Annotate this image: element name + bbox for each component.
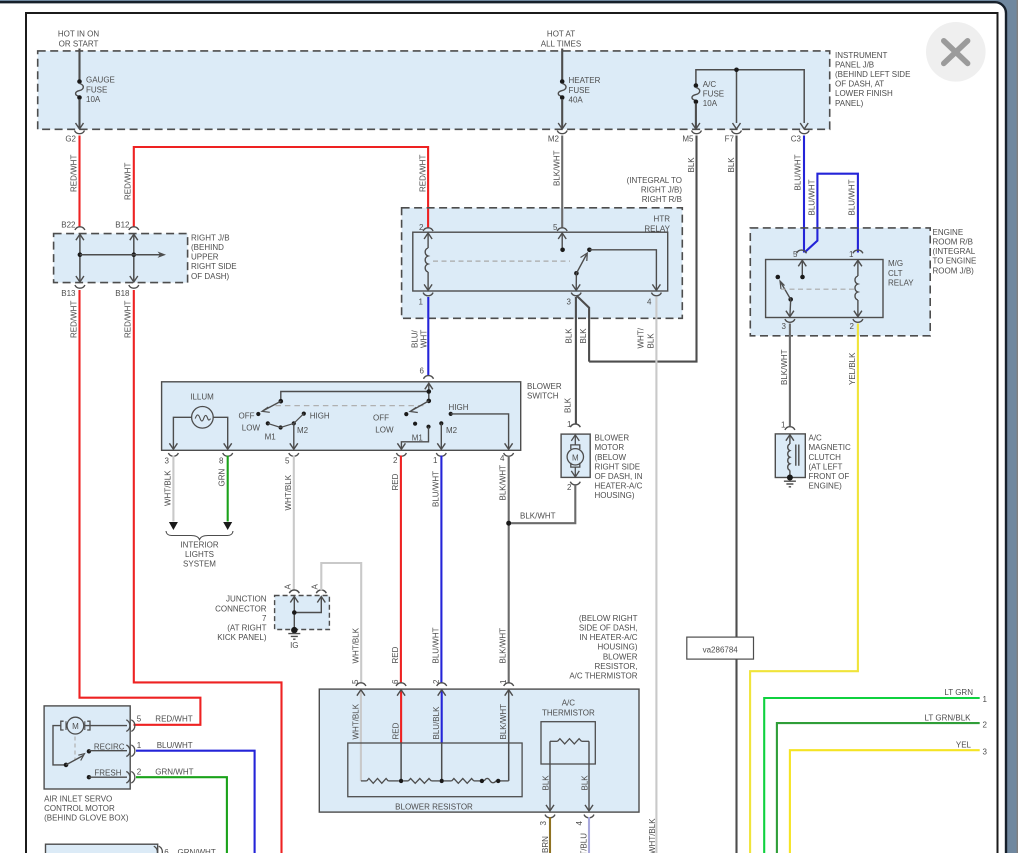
- resistor pin2 lead: [438, 690, 446, 781]
- wire WHT/BLK pin3 to interior lights: [172, 456, 174, 522]
- svg-text:GRN/WHT: GRN/WHT: [178, 848, 216, 853]
- close button: [926, 22, 986, 82]
- pin label 1 and BLU/WHT: [137, 741, 193, 750]
- wire BLK HTR pin3 branch to M5: [576, 296, 589, 362]
- svg-text:C3: C3: [791, 134, 802, 143]
- label BLU/ WHT: [411, 329, 429, 348]
- svg-text:A/C: A/C: [703, 80, 717, 89]
- connector B12: [115, 220, 139, 230]
- svg-text:2: 2: [432, 679, 441, 684]
- node HOT IN ON OR START: [58, 30, 99, 49]
- svg-text:(INTEGRAL TO: (INTEGRAL TO: [627, 176, 682, 185]
- pin label 2 and GRN/WHT: [137, 768, 194, 777]
- svg-text:CLT: CLT: [888, 269, 903, 278]
- label HEATER FUSE 40A: [569, 76, 601, 104]
- svg-text:10A: 10A: [703, 99, 718, 108]
- svg-text:1: 1: [849, 250, 854, 259]
- svg-text:BLK: BLK: [580, 775, 589, 791]
- relay coil MG: [854, 260, 862, 317]
- wire right HIGH contact to pin4: [451, 414, 513, 449]
- svg-text:OF DASH): OF DASH): [191, 272, 230, 281]
- svg-text:BLK/WHT: BLK/WHT: [499, 465, 508, 501]
- junction blower motor ground: [506, 521, 511, 526]
- svg-text:FRONT OF: FRONT OF: [809, 472, 850, 481]
- connector B22: [61, 220, 85, 230]
- svg-text:BLOWER: BLOWER: [603, 652, 638, 661]
- label A/C THERMISTOR: [542, 699, 595, 718]
- connector bottom pin 6: [154, 846, 163, 853]
- engine room R/B outer box: [750, 228, 930, 336]
- svg-text:HOUSING): HOUSING): [598, 643, 638, 652]
- wire WHT/BLK pin5 to junction connector: [293, 456, 295, 591]
- fuse A/C FUSE 10A: [692, 83, 700, 129]
- svg-text:BRN: BRN: [541, 836, 550, 853]
- svg-text:A/C THERMISTOR: A/C THERMISTOR: [569, 672, 637, 681]
- svg-text:8: 8: [219, 457, 224, 466]
- svg-text:ILLUM: ILLUM: [190, 393, 214, 402]
- svg-text:LT GRN: LT GRN: [944, 688, 973, 697]
- svg-text:RED/WHT: RED/WHT: [70, 301, 79, 338]
- svg-text:BLK/WHT: BLK/WHT: [780, 349, 789, 385]
- svg-text:M2: M2: [297, 426, 309, 435]
- connector switch pin 8: [219, 453, 233, 466]
- svg-text:1: 1: [419, 297, 424, 306]
- svg-text:5: 5: [793, 250, 798, 259]
- svg-text:3: 3: [782, 322, 787, 331]
- svg-text:CLUTCH: CLUTCH: [809, 453, 842, 462]
- svg-text:4: 4: [647, 297, 652, 306]
- svg-text:JUNCTION: JUNCTION: [226, 595, 267, 604]
- svg-text:2: 2: [567, 483, 572, 492]
- connector switch pin 4: [500, 453, 514, 463]
- engine room R/B outer box fill: [750, 228, 930, 336]
- svg-text:HIGH: HIGH: [449, 403, 469, 412]
- connector thermistor pin 4: [575, 815, 594, 826]
- svg-text:BLU/WHT: BLU/WHT: [808, 179, 817, 215]
- wire BLU/WHT servo pin1 down: [136, 751, 255, 853]
- svg-text:PANEL J/B: PANEL J/B: [835, 60, 874, 69]
- svg-text:(AT RIGHT: (AT RIGHT: [227, 624, 266, 633]
- resistor pin5 lead: [357, 690, 365, 781]
- svg-text:HEATER-A/C: HEATER-A/C: [595, 482, 643, 491]
- svg-text:2: 2: [393, 456, 398, 465]
- connector MG pin 2: [850, 319, 863, 331]
- svg-text:HEATER: HEATER: [569, 76, 601, 85]
- svg-text:BLU/WHT: BLU/WHT: [432, 471, 441, 507]
- label JUNCTION CONNECTOR 7 (AT RIGHT KICK PANEL): [215, 595, 267, 642]
- svg-text:BLU/WHT: BLU/WHT: [157, 741, 193, 750]
- wire lamp to pin3: [169, 417, 191, 449]
- svg-text:OR START: OR START: [59, 39, 99, 48]
- connector M5: [682, 131, 701, 144]
- relay link dashed HTR: [433, 260, 570, 262]
- svg-text:7: 7: [262, 614, 267, 623]
- svg-text:BLK: BLK: [565, 328, 574, 344]
- label INSTRUMENT PANEL J/B: [835, 51, 910, 108]
- junction connector internal wires: [290, 597, 325, 630]
- svg-text:TO ENGINE: TO ENGINE: [933, 257, 977, 266]
- connector resistor pin 2: [432, 679, 447, 686]
- connector resistor pin 5: [351, 679, 366, 686]
- wire BLU/WHT bridge pin5 to pin1 of M/G CLT relay: [805, 174, 858, 253]
- wire pin6 feed inside switch: [281, 383, 433, 400]
- connector A right: [311, 584, 327, 594]
- svg-text:RED/WHT: RED/WHT: [70, 155, 79, 192]
- wire lamp to pin8: [213, 417, 232, 449]
- right J/B box: [54, 234, 188, 283]
- junction connector box: [275, 596, 330, 630]
- svg-text:SYSTEM: SYSTEM: [183, 560, 216, 569]
- connector B18: [115, 285, 139, 298]
- thermistor resistor: [550, 739, 589, 744]
- svg-text:LOWER FINISH: LOWER FINISH: [835, 89, 893, 98]
- blower switch box: [162, 382, 521, 451]
- connector servo pin 1: [126, 745, 135, 757]
- svg-text:BLOWER: BLOWER: [527, 382, 562, 391]
- wire right M2 contact to pin1: [437, 423, 445, 449]
- svg-text:2: 2: [137, 768, 142, 777]
- svg-text:(BEHIND LEFT SIDE: (BEHIND LEFT SIDE: [835, 70, 910, 79]
- svg-text:6: 6: [420, 367, 425, 376]
- thermistor leads: [546, 741, 593, 811]
- wire LT GRN right side: [764, 698, 980, 853]
- blower motor box: [561, 434, 590, 477]
- svg-text:GRN/WHT: GRN/WHT: [155, 768, 193, 777]
- svg-text:BLOWER RESISTOR: BLOWER RESISTOR: [395, 802, 473, 811]
- svg-text:RIGHT R/B: RIGHT R/B: [642, 195, 682, 204]
- svg-text:BLK: BLK: [687, 157, 696, 173]
- svg-text:M2: M2: [446, 426, 458, 435]
- wire YEL right side: [790, 750, 980, 853]
- switch lever left: [262, 399, 283, 412]
- svg-text:WHT/: WHT/: [637, 327, 646, 348]
- HTR relay outer box: [402, 208, 683, 318]
- connector C3: [791, 131, 809, 144]
- svg-text:F7: F7: [725, 134, 735, 143]
- svg-text:6: 6: [391, 679, 400, 684]
- svg-text:BLK: BLK: [647, 333, 656, 349]
- switch lever right: [410, 399, 431, 413]
- label RIGHT J/B (BEHIND UPPER RIGHT SIDE OF DASH): [191, 233, 237, 280]
- svg-text:G2: G2: [65, 134, 76, 143]
- svg-text:RED/WHT: RED/WHT: [124, 301, 133, 338]
- svg-text:BLOWER: BLOWER: [595, 434, 630, 443]
- svg-text:1: 1: [499, 679, 508, 684]
- connector blower motor pin 2: [567, 482, 580, 492]
- svg-text:BLU/BLK: BLU/BLK: [432, 706, 441, 740]
- svg-text:4: 4: [500, 454, 505, 463]
- svg-text:BLK: BLK: [564, 397, 573, 413]
- svg-text:GRN: GRN: [218, 469, 227, 487]
- wire RED/WHT B18 down to bottom: [134, 290, 282, 853]
- wire YEL/BLK MG pin2 down and left to bottom: [750, 324, 858, 853]
- connector HTR pin 4: [647, 293, 661, 307]
- svg-text:ENGINE): ENGINE): [809, 482, 843, 491]
- svg-text:LOW: LOW: [242, 424, 261, 433]
- switch mech link dashed: [275, 405, 426, 407]
- svg-text:MAGNETIC: MAGNETIC: [809, 443, 851, 452]
- connector blower switch pin 6: [420, 367, 434, 379]
- svg-text:10A: 10A: [86, 95, 101, 104]
- connector servo pin 5: [126, 720, 135, 732]
- svg-text:5: 5: [137, 715, 142, 724]
- label BLOWER MOTOR (BELOW RIGHT SIDE OF DASH IN HEATER-A/C HOUSING): [595, 434, 643, 501]
- wire B12-B18 bus inside J/B: [130, 234, 138, 282]
- connector switch pin 5: [285, 453, 299, 466]
- connector MG pin 1: [849, 250, 863, 259]
- svg-text:WHT/BLK: WHT/BLK: [648, 818, 657, 853]
- brace interior lights: [166, 531, 233, 540]
- svg-text:YEL/BLK: YEL/BLK: [848, 352, 857, 385]
- wire RED/WHT B13 down left side to air inlet servo: [80, 290, 201, 725]
- clutch ground: [784, 475, 796, 487]
- wire feed arrow inside J/B: [80, 252, 166, 258]
- svg-text:1: 1: [983, 695, 988, 704]
- ground IG: [288, 627, 300, 639]
- svg-text:WHT: WHT: [420, 330, 429, 348]
- servo motor M: [61, 717, 90, 734]
- wire WHT/BLU thermistor pin4: [588, 817, 590, 853]
- svg-text:THERMISTOR: THERMISTOR: [542, 708, 595, 717]
- svg-text:RED: RED: [392, 722, 401, 739]
- connector blower motor pin 1: [567, 420, 580, 429]
- relay link dashed MG: [781, 288, 855, 290]
- wire RED/WHT G2 to B22: [78, 136, 80, 228]
- svg-text:FUSE: FUSE: [703, 89, 724, 98]
- svg-text:ENGINE: ENGINE: [933, 228, 964, 237]
- svg-text:A/C: A/C: [809, 434, 823, 443]
- svg-text:M/G: M/G: [888, 259, 903, 268]
- svg-text:A: A: [284, 584, 293, 590]
- svg-text:A: A: [311, 584, 320, 590]
- label (BELOW RIGHT SIDE OF DASH IN HEATER-A/C HOUSING) BLOWER RESISTOR A/C THERMISTOR: [569, 614, 637, 681]
- arrow to interior lights 2: [223, 522, 232, 530]
- svg-text:SWITCH: SWITCH: [527, 392, 559, 401]
- svg-text:RIGHT SIDE: RIGHT SIDE: [191, 262, 237, 271]
- wire WHT/BLK junction connector to resistor pin 5: [321, 563, 361, 684]
- label (INTEGRAL TO RIGHT J/B) RIGHT R/B: [627, 176, 683, 204]
- svg-text:(BEHIND GLOVE BOX): (BEHIND GLOVE BOX): [44, 814, 129, 823]
- svg-text:M1: M1: [265, 433, 277, 442]
- node HOT AT ALL TIMES: [541, 30, 581, 49]
- servo wire motor to pin 5: [85, 725, 127, 727]
- wire GRN/WHT servo pin2 down: [136, 777, 227, 853]
- svg-text:CONNECTOR: CONNECTOR: [215, 604, 267, 613]
- wire GRN pin8 to interior lights: [227, 456, 229, 522]
- svg-text:ALL TIMES: ALL TIMES: [541, 39, 581, 48]
- svg-text:LOW: LOW: [375, 426, 394, 435]
- HTR relay outer box fill: [402, 208, 683, 318]
- label INTERIOR LIGHTS SYSTEM: [180, 540, 218, 568]
- svg-text:(BELOW RIGHT: (BELOW RIGHT: [579, 614, 638, 623]
- M/G CLT relay inner box: [766, 260, 883, 318]
- svg-text:UPPER: UPPER: [191, 253, 219, 262]
- labels OFF LOW M1 M2 HIGH right: [373, 403, 469, 442]
- svg-text:INSTRUMENT: INSTRUMENT: [835, 51, 888, 60]
- svg-text:RELAY: RELAY: [888, 278, 914, 287]
- svg-text:va286784: va286784: [703, 645, 739, 654]
- connector switch pin 1: [433, 453, 446, 465]
- connector A left: [284, 584, 300, 594]
- wire HOT AT ALL TIMES to heater fuse: [561, 49, 563, 81]
- servo dashed link: [74, 737, 76, 761]
- svg-text:RED: RED: [391, 646, 400, 663]
- svg-text:BLU/WHT: BLU/WHT: [848, 179, 857, 215]
- connector switch pin 3: [165, 453, 179, 466]
- svg-text:B22: B22: [61, 220, 76, 229]
- servo contact FRESH: [87, 775, 127, 779]
- svg-text:FUSE: FUSE: [86, 85, 107, 94]
- connector MG pin 3: [782, 319, 795, 331]
- arrow to interior lights 1: [169, 522, 178, 530]
- wire BLK/WHT MG pin3 to A/C clutch: [789, 324, 791, 427]
- wire RED pin2 to blower resistor: [400, 456, 402, 684]
- label GAUGE FUSE 10A: [86, 76, 115, 104]
- svg-text:1: 1: [137, 741, 142, 750]
- svg-text:WHT/BLK: WHT/BLK: [352, 703, 361, 739]
- resistor pin1 lead: [505, 690, 513, 781]
- svg-text:BLK/WHT: BLK/WHT: [553, 150, 562, 186]
- labels OFF LOW M1 M2 HIGH left: [239, 411, 330, 441]
- svg-text:RESISTOR,: RESISTOR,: [595, 662, 638, 671]
- connector F7: [725, 131, 742, 144]
- label ENGINE ROOM R/B (INTEGRAL TO ENGINE ROOM J/B): [933, 228, 977, 275]
- svg-text:BLK: BLK: [542, 775, 551, 791]
- connector HTR pin 1: [419, 293, 434, 307]
- wire BLK HTR pin3 to blower motor: [575, 297, 577, 425]
- svg-text:5: 5: [351, 679, 360, 684]
- wire RED/WHT B12 up and over to HTR relay pin 2: [134, 147, 428, 229]
- svg-text:3: 3: [165, 457, 170, 466]
- svg-text:B12: B12: [115, 220, 130, 229]
- svg-text:3: 3: [539, 821, 548, 826]
- svg-text:RED/WHT: RED/WHT: [124, 163, 133, 200]
- svg-text:BLU/WHT: BLU/WHT: [794, 154, 803, 190]
- wire BLK/WHT M2 to HTR relay pin 5: [561, 136, 563, 229]
- wire LT GRN/BLK right side: [777, 723, 980, 853]
- label BLOWER SWITCH: [527, 382, 562, 401]
- clutch coil: [786, 435, 799, 477]
- svg-text:B13: B13: [61, 289, 76, 298]
- label WHT/ BLK: [637, 327, 656, 348]
- scrollbar sliver: [1017, 0, 1018, 853]
- blower motor M: [567, 435, 583, 477]
- connector thermistor pin 3: [539, 815, 555, 826]
- connector MG pin 5: [793, 250, 806, 259]
- svg-text:2: 2: [850, 322, 855, 331]
- svg-text:M2: M2: [548, 134, 560, 143]
- svg-text:(BELOW: (BELOW: [595, 453, 627, 462]
- label M/G CLT RELAY: [888, 259, 914, 287]
- connector HTR pin 3: [567, 293, 582, 307]
- svg-text:OF DASH, IN: OF DASH, IN: [595, 472, 643, 481]
- svg-text:(BEHIND: (BEHIND: [191, 243, 224, 252]
- svg-text:AIR INLET SERVO: AIR INLET SERVO: [44, 795, 112, 804]
- svg-text:M: M: [572, 453, 579, 462]
- wire HOT IN ON to gauge fuse: [78, 49, 80, 81]
- connector G2: [65, 131, 84, 144]
- wire BLU/WHT HTR pin1 to blower switch pin 6: [427, 297, 429, 376]
- svg-text:OF DASH, AT: OF DASH, AT: [835, 80, 884, 89]
- svg-text:6: 6: [164, 848, 169, 853]
- connector resistor pin 1: [499, 679, 514, 686]
- fuse GAUGE FUSE 10A: [76, 79, 84, 129]
- label A/C FUSE 10A: [703, 80, 724, 108]
- svg-text:WHT/BLK: WHT/BLK: [164, 470, 173, 506]
- svg-text:5: 5: [553, 223, 558, 232]
- connector clutch pin 1: [781, 421, 795, 430]
- A/C magnetic clutch box: [775, 434, 805, 478]
- svg-text:BLK: BLK: [579, 328, 588, 344]
- svg-text:GAUGE: GAUGE: [86, 76, 115, 85]
- switch contacts right group: [404, 412, 453, 429]
- wire BLU/WHT pin1 to blower resistor: [440, 456, 442, 684]
- svg-text:OFF: OFF: [239, 411, 255, 420]
- svg-text:SIDE OF DASH,: SIDE OF DASH,: [579, 624, 638, 633]
- arrows F7 C3 at box bottom: [733, 123, 809, 129]
- svg-text:HOUSING): HOUSING): [595, 491, 635, 500]
- svg-text:HOT IN ON: HOT IN ON: [58, 30, 99, 39]
- svg-text:BLU/: BLU/: [411, 329, 420, 348]
- instrument panel J/B box: [38, 51, 830, 129]
- lamp ILLUM: [192, 407, 214, 429]
- label va286784: [687, 637, 754, 659]
- svg-text:FRESH: FRESH: [94, 768, 121, 777]
- svg-text:RIGHT SIDE: RIGHT SIDE: [595, 462, 641, 471]
- svg-text:BLK/WHT: BLK/WHT: [499, 704, 508, 740]
- svg-text:M1: M1: [412, 433, 424, 442]
- svg-text:ROOM R/B: ROOM R/B: [933, 238, 973, 247]
- wire B22-B13 bus inside J/B: [76, 234, 84, 282]
- svg-text:M5: M5: [682, 134, 694, 143]
- label HTR RELAY: [644, 215, 670, 234]
- svg-text:BLK: BLK: [727, 157, 736, 173]
- svg-text:RED/WHT: RED/WHT: [155, 715, 192, 724]
- svg-text:KICK PANEL): KICK PANEL): [217, 633, 267, 642]
- wire A/C fuse feed with junction to F7 and C3: [696, 68, 804, 124]
- svg-text:YEL: YEL: [956, 740, 972, 749]
- blower resistor inner box: [348, 743, 522, 797]
- svg-text:2: 2: [419, 223, 424, 232]
- svg-text:RED: RED: [391, 473, 400, 490]
- blower resistor box: [319, 689, 639, 812]
- servo lever: [64, 754, 85, 768]
- svg-text:WHT/BLK: WHT/BLK: [284, 474, 293, 510]
- svg-text:5: 5: [285, 457, 290, 466]
- resistor pin6 lead: [397, 690, 405, 781]
- resistor chain: [361, 778, 509, 783]
- servo contact RECIRC: [87, 749, 127, 753]
- svg-text:A/C: A/C: [562, 699, 576, 708]
- svg-text:HTR: HTR: [654, 215, 671, 224]
- HTR relay inner box: [413, 232, 668, 291]
- pin label 5 and RED/WHT: [137, 715, 193, 724]
- svg-text:IG: IG: [290, 641, 298, 650]
- svg-text:M: M: [72, 722, 79, 731]
- wire right mid contact to pin2: [397, 427, 428, 450]
- servo wire motor left to lever: [53, 726, 65, 765]
- svg-text:PANEL): PANEL): [835, 99, 864, 108]
- connector HTR pin 2: [419, 223, 433, 232]
- svg-text:RECIRC: RECIRC: [94, 742, 125, 751]
- svg-text:RIGHT J/B): RIGHT J/B): [641, 186, 683, 195]
- relay MG switch: [776, 275, 794, 317]
- svg-text:OFF: OFF: [373, 414, 389, 423]
- svg-text:INTERIOR: INTERIOR: [180, 540, 218, 549]
- svg-text:(INTEGRAL: (INTEGRAL: [933, 247, 976, 256]
- svg-text:LIGHTS: LIGHTS: [185, 550, 214, 559]
- svg-text:RED/WHT: RED/WHT: [419, 155, 428, 192]
